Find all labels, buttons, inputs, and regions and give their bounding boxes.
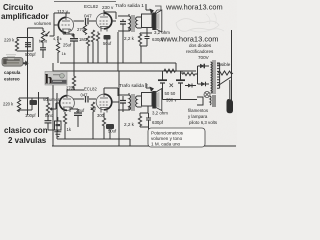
svg-text:tono: tono	[45, 113, 54, 118]
loop frame lower	[19, 92, 39, 117]
tone cap box (lower left)	[55, 117, 62, 130]
cathode bypass cap 25uf (upper)	[70, 39, 78, 41]
svg-text:h: h	[45, 73, 53, 88]
speaker2 top wire	[147, 106, 149, 113]
svg-text:clasico con: clasico con	[4, 126, 48, 135]
T1 core	[132, 15, 134, 32]
resistor 1M3 (upper)	[86, 36, 89, 46]
clip symbol top right of title	[155, 6, 161, 13]
resistor 220k (upper, left side of loop)	[15, 38, 18, 52]
potentiometer volumen (upper)	[41, 28, 44, 47]
tube V3 triode (lower)	[60, 93, 75, 113]
svg-text:047: 047	[81, 93, 89, 98]
svg-text:2,2 k: 2,2 k	[124, 36, 135, 41]
wire grid to pot (upper)	[50, 25, 59, 36]
svg-text:220 k: 220 k	[4, 38, 15, 43]
capsula photo	[2, 58, 23, 67]
pot wiper arrow (lower)	[50, 103, 60, 110]
svg-text:volumen y tono: volumen y tono	[151, 136, 183, 141]
tube V4 ECL82 pentode (lower)	[96, 91, 112, 113]
feedback cap in vertical wire (upper)	[122, 19, 124, 32]
drop V1 cathode to bus	[58, 34, 74, 63]
drop 1M3 to bus	[87, 46, 89, 63]
capsula arrow	[23, 60, 29, 66]
zobel resistor 2,2k (upper)	[138, 33, 141, 46]
plate load resistor 270k (lower)	[72, 63, 75, 90]
cathode bypass cap 50uf blob (upper)	[104, 35, 111, 40]
svg-text:ECL82: ECL82	[84, 4, 98, 9]
caps ground return wire	[163, 90, 198, 100]
resistor 1k drop (lower)	[64, 126, 66, 139]
svg-text:4,7 k: 4,7 k	[53, 36, 62, 41]
ground symbol below tone box	[54, 130, 61, 137]
drop T1 to bus	[118, 32, 123, 71]
svg-text:230 v: 230 v	[102, 5, 114, 10]
cathode cap 25uf (lower)	[74, 113, 82, 115]
svg-text:ECL82: ECL82	[84, 87, 97, 92]
junction right, bus connect	[175, 63, 177, 71]
lower bus y139	[57, 139, 130, 146]
svg-text:Trafo salida 1: Trafo salida 1	[115, 3, 144, 9]
zobel cap 630pf (lower)	[140, 113, 151, 130]
input loop lower: wire top	[19, 97, 48, 99]
filament winding bracket	[197, 95, 215, 107]
pot wiper arrow (upper)	[46, 32, 50, 37]
wire plate V1 up and right	[54, 13, 70, 25]
svg-text:Trafo salida 2: Trafo salida 2	[119, 83, 148, 89]
resistor 270k (upper)	[83, 25, 86, 35]
switch	[219, 77, 231, 85]
svg-text:100pf: 100pf	[25, 113, 36, 118]
loop frame 220k/500pf (upper)	[17, 38, 33, 52]
mains cord	[230, 30, 232, 100]
T2 secondary	[136, 96, 137, 107]
coupling wire (lower)	[73, 98, 96, 100]
svg-text:Potenciometros: Potenciometros	[151, 131, 184, 136]
wire input top (upper)	[28, 27, 44, 29]
svg-text:700V: 700V	[198, 55, 210, 60]
svg-text:300: 300	[97, 113, 105, 118]
svg-text:3,2 ohm: 3,2 ohm	[154, 30, 170, 35]
resistor to rectifier (horizontal)	[182, 71, 198, 76]
resistor 220k (lower)	[17, 98, 20, 112]
bottom bus y146	[52, 145, 236, 147]
cathode cap 50uf blob (lower)	[106, 124, 114, 129]
tube V2 ECL82 pentode (upper)	[96, 10, 112, 32]
drop 1M to lower bus	[92, 116, 94, 139]
coupling wire (upper)	[74, 20, 97, 22]
coupling cap 047 (lower)	[86, 96, 89, 103]
svg-text:1M3: 1M3	[79, 37, 88, 42]
electrolytic cap 50uf B	[176, 79, 185, 81]
svg-text:rectificadores: rectificadores	[186, 49, 214, 54]
grid resistor (upper)	[91, 30, 94, 44]
svg-text:25uf: 25uf	[76, 108, 85, 113]
chassis ground above speaker 2	[146, 83, 150, 88]
speaker SP1	[142, 10, 162, 32]
svg-text:estereo: estereo	[4, 77, 20, 82]
grid resistor 1M (lower)	[91, 102, 94, 116]
output transformer T2 primary	[129, 95, 131, 110]
cathode resistor 300 (upper)	[96, 32, 99, 43]
bus y71	[53, 70, 196, 72]
zobel drop wire	[141, 28, 147, 64]
drop grid res to bus	[92, 44, 94, 63]
cathode resistor 4,7k (upper)	[56, 36, 59, 53]
T2 wires	[118, 93, 142, 110]
svg-text:630pf: 630pf	[152, 37, 164, 42]
svg-text:fusible: fusible	[217, 62, 231, 67]
svg-text:amplificador: amplificador	[1, 12, 49, 21]
top border wire	[54, 1, 116, 3]
cathode resistor 300 (lower)	[102, 113, 105, 128]
tiny caption above capsula	[6, 55, 16, 57]
svg-text:volumen: volumen	[34, 21, 52, 26]
svg-text:tono: tono	[39, 39, 48, 44]
svg-text:1M: 1M	[90, 106, 96, 111]
wire input vertical bus from capsula	[27, 28, 29, 115]
drop V4 cathode to lower bus	[104, 127, 110, 139]
svg-text:270k: 270k	[77, 27, 87, 32]
svg-text:capsula: capsula	[4, 70, 21, 75]
T3 right winding	[217, 63, 220, 88]
svg-text:1 M. cada uno: 1 M. cada uno	[151, 142, 181, 147]
diode D2	[198, 83, 210, 85]
bus B+ upper y63	[60, 62, 176, 64]
mains plug	[227, 99, 234, 113]
vertical rail x57 lower	[56, 93, 58, 139]
wire plate V2 to transformer	[104, 10, 116, 21]
T1 wires	[118, 14, 142, 31]
drop V2 cathode to bus	[98, 40, 107, 64]
svg-text:220 k: 220 k	[3, 102, 14, 107]
svg-text:www.hora13.com: www.hora13.com	[165, 3, 223, 12]
tone cap under lower pot	[48, 119, 58, 130]
svg-text:50uf: 50uf	[108, 129, 117, 134]
pilot lamp	[204, 92, 210, 98]
zobel cap 630pf (upper)	[140, 33, 152, 46]
svg-text:2 valvulas: 2 valvulas	[8, 136, 47, 145]
tube V1 triode (upper)	[58, 14, 73, 34]
diode D1	[198, 65, 210, 67]
tone cap to ground (upper)	[42, 47, 44, 59]
svg-text:047: 047	[84, 14, 92, 19]
svg-text:filamentos: filamentos	[188, 108, 209, 113]
T3 core	[213, 60, 215, 94]
svg-text:25uf: 25uf	[63, 43, 72, 48]
potentiometer volumen (lower)	[46, 97, 49, 119]
svg-text:piloto 6,3 volts: piloto 6,3 volts	[189, 120, 218, 125]
cathode resistor (lower V3)	[63, 112, 66, 126]
faint sketch doodle 2	[190, 29, 224, 32]
T2 core	[132, 94, 134, 111]
diode D3 small	[185, 85, 196, 87]
cap 100pf black blob (lower)	[30, 100, 38, 105]
svg-text:50 50: 50 50	[165, 91, 176, 96]
faint sketch doodle top right	[176, 19, 219, 32]
T1 secondary	[136, 17, 137, 28]
speaker SP2	[142, 89, 162, 111]
filter resistor in B+ bus	[164, 69, 175, 73]
svg-text:3,2 ohm: 3,2 ohm	[152, 111, 168, 116]
zobel resistor 2,2k (lower)	[138, 113, 141, 127]
diode junction vertical	[197, 66, 199, 84]
wire plate V3 up/right	[67, 90, 84, 93]
electrolytic cap 50uf A	[158, 79, 167, 81]
svg-text:630pf: 630pf	[152, 120, 164, 125]
fuse symbol	[218, 71, 233, 75]
cross mark between caps	[170, 84, 174, 88]
output transformer T1 primary	[129, 16, 131, 31]
capacitor 500pf bars (upper)	[25, 43, 31, 47]
T3 primary top wire to fuse	[204, 63, 220, 68]
note box Potenciometros	[148, 128, 205, 147]
power transformer T3 left winding	[211, 62, 213, 93]
chassis ground above speaker	[146, 4, 150, 10]
svg-text:Circuito: Circuito	[3, 3, 33, 12]
svg-text:dos diodes: dos diodes	[189, 43, 212, 48]
coupling cap 047 (upper)	[86, 18, 89, 25]
wire plate V4 to T2	[104, 88, 119, 102]
hora13 logo box	[45, 72, 67, 88]
svg-text:2,2 k: 2,2 k	[124, 122, 135, 127]
svg-text:1k: 1k	[62, 51, 66, 56]
feedback cap (lower)	[119, 71, 123, 146]
svg-text:y lampara: y lampara	[188, 114, 208, 119]
vertical rail x53	[52, 63, 54, 146]
svg-text:500pf: 500pf	[25, 52, 36, 57]
